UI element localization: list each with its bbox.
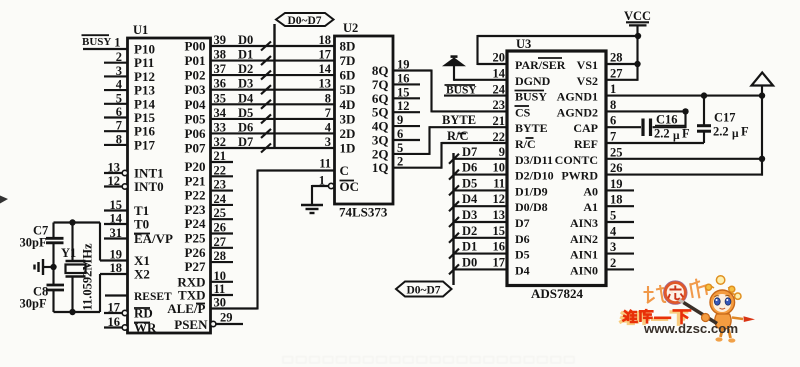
svg-text:D3: D3	[462, 208, 477, 222]
svg-text:11.0592MHz: 11.0592MHz	[81, 243, 95, 310]
svg-text:BYTE: BYTE	[515, 121, 548, 135]
wire net BUSY to ADS7824 BUSY (pin 24)	[444, 83, 507, 97]
svg-text:D2/D10: D2/D10	[515, 169, 554, 183]
svg-text:A1: A1	[583, 200, 598, 214]
wire U1 pin 29 PSEN stub with bubble	[174, 311, 243, 333]
svg-text:18: 18	[319, 33, 332, 47]
svg-text:1: 1	[610, 82, 616, 96]
svg-text:30pF: 30pF	[20, 236, 47, 250]
svg-text:36: 36	[214, 77, 227, 91]
svg-text:D6: D6	[515, 232, 530, 246]
wire U3 AGND2 (pin 8)	[606, 98, 689, 115]
svg-text:D4: D4	[515, 263, 530, 277]
svg-text:CONTC: CONTC	[555, 153, 598, 167]
wire X1 node: top bar to U1 X1	[54, 219, 101, 260]
svg-text:29: 29	[220, 311, 233, 325]
wire U1 pin 6 P15 stub	[104, 105, 155, 125]
svg-text:32: 32	[214, 135, 227, 149]
svg-text:38: 38	[214, 48, 227, 62]
svg-text:17: 17	[319, 48, 332, 62]
svg-text:P27: P27	[185, 259, 206, 274]
wire U3 VS1 (pin 28) to VCC	[606, 51, 638, 65]
wire data bus D3: U1 P03 (pin 36) to 74LS373 5D (pin 13)	[211, 77, 335, 95]
svg-text:BYTE: BYTE	[442, 113, 476, 127]
svg-text:CAP: CAP	[573, 121, 598, 135]
svg-text:8Q: 8Q	[372, 63, 389, 78]
svg-text:P05: P05	[185, 111, 206, 126]
svg-text:8D: 8D	[340, 39, 356, 54]
wire PAR/SER (pin 20) tie to VCC rail	[478, 33, 642, 65]
node U3 left pin label D0/D8	[515, 200, 548, 214]
wire data bus D5: U1 P05 (pin 34) to 74LS373 3D (pin 7)	[211, 106, 335, 124]
wire data bus D2 to ADS7824 pin 15	[449, 224, 507, 243]
wire U1 pin 19 X1 stub	[100, 248, 150, 269]
wire U1 pin 5 P14 stub	[104, 91, 155, 111]
svg-text:D5: D5	[238, 106, 253, 120]
svg-text:35: 35	[214, 91, 227, 105]
svg-text:P07: P07	[185, 141, 206, 156]
svg-text:D1: D1	[238, 48, 253, 62]
svg-text:37: 37	[214, 62, 227, 76]
svg-text:1: 1	[114, 36, 120, 50]
svg-text:P03: P03	[185, 82, 206, 97]
svg-text:P20: P20	[185, 159, 206, 174]
node U3 left pin label D2/D10	[515, 169, 554, 183]
svg-text:16: 16	[397, 71, 410, 85]
svg-text:2Q: 2Q	[372, 146, 389, 161]
svg-text:25: 25	[610, 145, 623, 159]
svg-text:D0: D0	[238, 33, 253, 47]
wire U1 pin 27 P26 stub	[185, 235, 233, 260]
svg-text:P00: P00	[185, 39, 206, 54]
svg-text:AGND2: AGND2	[557, 105, 598, 119]
svg-text:19: 19	[610, 177, 623, 191]
svg-text:3: 3	[325, 135, 331, 149]
node bus flag D0~D7 (bottom)	[396, 282, 452, 297]
svg-text:30: 30	[214, 296, 227, 310]
capacitor C17 2.2uF on REF pin 7	[606, 96, 749, 144]
svg-text:C: C	[340, 163, 349, 178]
svg-text:8: 8	[610, 98, 616, 112]
svg-text:BUSY: BUSY	[515, 90, 547, 104]
svg-text:D0~D7: D0~D7	[287, 15, 321, 27]
svg-text:PWRD: PWRD	[561, 169, 598, 183]
wire data bus D4: U1 P04 (pin 35) to 74LS373 4D (pin 8)	[211, 91, 335, 109]
wire U1 pin 18 X2 stub	[100, 261, 150, 282]
svg-text:15: 15	[397, 85, 410, 99]
wire U2 OC (pin 1) to ground	[312, 174, 359, 205]
wire U3 VS2 (pin 27) to VCC	[606, 67, 638, 81]
svg-text:17: 17	[493, 255, 506, 269]
svg-text:U2: U2	[343, 21, 358, 35]
svg-text:25: 25	[214, 206, 227, 220]
svg-text:19: 19	[397, 58, 410, 72]
svg-text:2.2: 2.2	[713, 125, 729, 139]
svg-text:P02: P02	[185, 68, 206, 83]
svg-text:22: 22	[214, 163, 227, 177]
wire U1 pin 22 P21 stub	[185, 163, 233, 188]
svg-text:D0~D7: D0~D7	[406, 285, 440, 297]
svg-text:28: 28	[610, 51, 623, 65]
svg-text:23: 23	[214, 178, 227, 192]
wire U1 pin 17 RD stub with bubble	[104, 301, 153, 321]
svg-text:26: 26	[610, 161, 623, 175]
svg-text:6: 6	[610, 114, 616, 128]
svg-text:P01: P01	[185, 53, 206, 68]
svg-text:ADS7824: ADS7824	[531, 286, 584, 301]
svg-text:D3/D11: D3/D11	[515, 153, 553, 167]
svg-text:7: 7	[610, 130, 616, 144]
wire data bus D3 to ADS7824 pin 13	[449, 208, 507, 227]
svg-text:INT0: INT0	[134, 179, 164, 194]
svg-text:27: 27	[610, 67, 623, 81]
svg-text:U3: U3	[516, 37, 531, 51]
svg-text:13: 13	[493, 208, 506, 222]
wire data bus D1: U1 P01 (pin 38) to 74LS373 7D (pin 17)	[211, 48, 335, 66]
svg-text:2: 2	[610, 256, 616, 270]
svg-text:D6: D6	[462, 161, 477, 175]
wire U1 pin 4 P13 stub	[104, 78, 155, 98]
svg-text:9: 9	[499, 145, 505, 159]
wire U3 pin 5 AIN3 stub	[606, 209, 634, 223]
svg-text:D5: D5	[462, 176, 477, 190]
svg-text:T0: T0	[134, 217, 149, 232]
svg-text:F: F	[682, 127, 690, 141]
node U3 left pin label D1/D9	[515, 184, 548, 198]
svg-text:D6: D6	[238, 120, 253, 134]
node U3 left pin label CS	[515, 105, 531, 119]
svg-text:11: 11	[493, 176, 505, 190]
faint scanned caption (blurred)	[283, 357, 574, 364]
svg-text:C16: C16	[656, 113, 678, 127]
svg-text:74LS373: 74LS373	[339, 205, 388, 220]
wire U3 AGND1 (pin 1) to analog ground rail	[606, 82, 765, 99]
svg-text:D7: D7	[515, 216, 530, 230]
wire U3 pin 2 AIN0 stub	[606, 256, 634, 270]
node U3 left pin label D3/D11	[515, 153, 553, 167]
svg-text:F: F	[741, 125, 749, 139]
svg-text:P21: P21	[185, 173, 206, 188]
svg-text:11: 11	[319, 157, 331, 171]
svg-text:14: 14	[319, 62, 332, 76]
wire U2 output 5Q (pin 12) stub	[372, 99, 420, 120]
svg-text:5Q: 5Q	[372, 105, 389, 120]
svg-text:18: 18	[110, 261, 123, 275]
svg-text:9: 9	[397, 113, 403, 127]
op-amp U3 ADS7824 ADC body	[507, 37, 606, 301]
node bus flag D0~D7 (top)	[276, 13, 334, 27]
wire data bus D7 to ADS7824 pin 9	[449, 145, 507, 164]
wire U2 output 2Q (pin 5) stub	[372, 141, 430, 162]
svg-text:P26: P26	[185, 245, 206, 260]
scan artifact mark	[0, 196, 8, 204]
wire U1 pin 24 P23 stub	[185, 192, 233, 217]
svg-text:AIN3: AIN3	[570, 216, 598, 230]
svg-text:3D: 3D	[340, 111, 356, 126]
node U3 left pin label D6	[515, 232, 530, 246]
svg-text:D1/D9: D1/D9	[515, 184, 548, 198]
svg-text:www.dzsc.com: www.dzsc.com	[643, 321, 738, 336]
ground symbol below U2 OC	[301, 205, 323, 213]
node U3 left pin label BYTE	[515, 121, 548, 135]
svg-text:1D: 1D	[340, 141, 356, 156]
wire U1 pin 7 P16 stub	[104, 119, 155, 139]
svg-text:D0/D8: D0/D8	[515, 200, 548, 214]
node U3 left pin label D5	[515, 248, 530, 262]
svg-text:R/C: R/C	[515, 137, 536, 151]
svg-text:U1: U1	[133, 23, 148, 37]
svg-text:5: 5	[397, 141, 403, 155]
svg-text:16: 16	[493, 240, 506, 254]
svg-text:6: 6	[397, 127, 403, 141]
wire U2 output 7Q (pin 16) stub	[372, 71, 420, 92]
wire X2 node: bottom bar to U1 X2	[54, 274, 101, 315]
wire ALE/P (U1 pin 30) to 74LS373 C (pin 11)	[167, 157, 334, 317]
svg-text:11: 11	[214, 282, 226, 296]
node BUSY (U1 pin 1 P10)	[82, 35, 155, 56]
wire U1 pin 31 EA/VP stub	[104, 226, 173, 246]
svg-text:15: 15	[493, 224, 506, 238]
svg-text:μ: μ	[673, 130, 680, 142]
node U3 left pin label R/C	[515, 137, 536, 151]
capacitor C7 30pF	[20, 223, 64, 285]
svg-text:A0: A0	[583, 184, 598, 198]
svg-text:CS: CS	[515, 105, 531, 119]
svg-text:D5: D5	[515, 248, 530, 262]
wire data bus D4 to ADS7824 pin 12	[449, 192, 507, 211]
ground arrow (analog ground, open triangle)	[752, 73, 774, 176]
wire U2 output 6Q (pin 15) stub	[372, 85, 420, 106]
wire net BYTE: U2 2Q to ADS7824 BYTE (pin 21)	[430, 113, 508, 155]
wire net CS: U2 8Q to ADS7824 CS (pin 23)	[432, 70, 508, 113]
svg-text:34: 34	[214, 106, 227, 120]
svg-text:4: 4	[325, 120, 332, 134]
crystal Y1 11.0592MHz	[61, 223, 95, 313]
svg-text:AIN2: AIN2	[570, 232, 598, 246]
wire U3 pin 18 A1 stub	[606, 193, 634, 207]
svg-text:VS2: VS2	[577, 74, 598, 88]
wire U1 pin 8 P17 stub	[104, 132, 155, 152]
svg-text:19: 19	[110, 248, 123, 262]
svg-text:D2: D2	[238, 62, 253, 76]
svg-text:P06: P06	[185, 126, 206, 141]
svg-text:21: 21	[493, 114, 506, 128]
wire U1 pin 2 P11 stub	[104, 50, 154, 70]
wire U1 pin 3 P12 stub	[104, 64, 155, 84]
svg-text:8: 8	[325, 91, 331, 105]
svg-text:P25: P25	[185, 231, 206, 246]
ground symbol (crystal network)	[35, 259, 57, 275]
svg-text:24: 24	[214, 192, 227, 206]
wire U2 output 1Q (pin 2) stub	[372, 155, 442, 176]
wire U1 pin 26 P25 stub	[185, 221, 233, 246]
svg-text:D7: D7	[462, 145, 477, 159]
wire data bus D0 to ADS7824 pin 17	[449, 255, 507, 274]
wire data bus D5 to ADS7824 pin 11	[449, 176, 507, 195]
svg-text:P22: P22	[185, 188, 206, 203]
wire U1 pin 14 T0 stub	[104, 212, 149, 232]
svg-text:P24: P24	[185, 216, 206, 231]
svg-text:R/C: R/C	[447, 129, 469, 143]
svg-text:13: 13	[319, 77, 332, 91]
svg-text:24: 24	[493, 83, 506, 97]
watermark: dzsc.com mascot logo	[619, 276, 755, 343]
power symbol VCC	[624, 9, 651, 81]
wire data bus D2: U1 P02 (pin 37) to 74LS373 6D (pin 14)	[211, 62, 335, 80]
svg-text:VS1: VS1	[577, 58, 598, 72]
wire data bus D6 to ADS7824 pin 10	[449, 161, 507, 180]
svg-text:12: 12	[397, 99, 410, 113]
svg-text:20: 20	[493, 51, 506, 65]
wire U2 output 8Q (pin 19) stub	[372, 58, 432, 79]
wire U1 pin 13 INT1 stub with bubble	[104, 161, 164, 181]
svg-text:D3: D3	[238, 77, 253, 91]
wire vertical data bus line to flag D0~D7 (bottom)	[452, 153, 454, 285]
svg-text:D1: D1	[462, 240, 477, 254]
svg-text:VCC: VCC	[624, 9, 651, 23]
capacitor C16 2.2uF on CAP pin 6	[606, 111, 690, 142]
svg-text:7Q: 7Q	[372, 77, 389, 92]
svg-text:6D: 6D	[340, 68, 356, 83]
capacitor C8 30pF	[20, 285, 65, 313]
svg-text:Y1: Y1	[61, 246, 76, 260]
wire net R/C: U2 1Q to ADS7824 R/C (pin 22)	[442, 129, 508, 169]
svg-text:PAR/SER: PAR/SER	[515, 58, 566, 72]
svg-text:3: 3	[610, 240, 616, 254]
wire U1 pin 28 P27 stub	[185, 249, 233, 274]
wire U2 output 4Q (pin 9) stub	[372, 113, 420, 134]
node U3 left pin label PAR/SER	[515, 58, 566, 72]
wire U3 PWRD (pin 26) to ground rail	[606, 161, 763, 175]
svg-text:12: 12	[493, 192, 506, 206]
wire U1 pin 25 P24 stub	[185, 206, 233, 231]
svg-text:4Q: 4Q	[372, 119, 389, 134]
svg-text:39: 39	[214, 33, 227, 47]
wire U1 pin 11 TXD stub	[178, 282, 233, 303]
svg-text:BUSY: BUSY	[82, 36, 111, 48]
svg-text:AGND1: AGND1	[557, 90, 598, 104]
node U3 left pin label DGND	[515, 74, 551, 88]
op-amp U1 8051 MCU body	[128, 23, 211, 333]
wire U1 pin 16 WR stub with bubble	[104, 315, 157, 335]
svg-text:28: 28	[214, 249, 227, 263]
svg-text:AIN1: AIN1	[570, 248, 598, 262]
wire U1 RESET stub	[105, 291, 172, 303]
svg-text:4D: 4D	[340, 97, 356, 112]
wire U1 pin 12 INT0 stub with bubble	[104, 174, 164, 194]
wire vertical data bus line to flag D0~D7 (top)	[273, 24, 275, 149]
svg-text:7D: 7D	[340, 53, 356, 68]
svg-text:7: 7	[325, 106, 331, 120]
svg-text:C17: C17	[714, 111, 736, 125]
wire U1 pin 23 P22 stub	[185, 178, 233, 203]
wire data bus D6: U1 P06 (pin 33) to 74LS373 2D (pin 4)	[211, 120, 335, 138]
wire U3 pin 19 A0 stub	[606, 177, 634, 191]
svg-text:P04: P04	[185, 97, 206, 112]
svg-text:4: 4	[610, 224, 617, 238]
svg-text:5D: 5D	[340, 82, 356, 97]
svg-text:BUSY: BUSY	[446, 85, 477, 97]
wire data bus D0: U1 P00 (pin 39) to 74LS373 8D (pin 18)	[211, 33, 335, 51]
svg-text:AIN0: AIN0	[570, 263, 598, 277]
svg-text:22: 22	[493, 130, 506, 144]
svg-text:10: 10	[493, 161, 506, 175]
wire U3 CONTC (pin 25) to ground rail	[606, 145, 765, 162]
svg-text:DGND: DGND	[515, 74, 551, 88]
power arrow DGND (pin 14)	[444, 57, 508, 81]
svg-text:2D: 2D	[340, 126, 356, 141]
svg-text:5: 5	[610, 209, 616, 223]
node U3 left pin label D4	[515, 263, 530, 277]
svg-text:2.2: 2.2	[654, 127, 670, 141]
svg-text:26: 26	[214, 221, 227, 235]
wire U2 output 3Q (pin 6) stub	[372, 127, 420, 148]
wire data bus D7: U1 P07 (pin 32) to 74LS373 1D (pin 3)	[211, 135, 335, 153]
wire U3 pin 3 AIN1 stub	[606, 240, 634, 254]
svg-text:P17: P17	[134, 137, 155, 152]
op-amp U2 74LS373 latch body	[335, 21, 394, 220]
svg-text:μ: μ	[732, 128, 739, 140]
wire U1 pin 15 T1 stub	[104, 198, 149, 218]
wire U3 pin 4 AIN2 stub	[606, 224, 634, 238]
wire U1 pin 21 P20 stub	[185, 149, 233, 174]
svg-text:1Q: 1Q	[372, 160, 389, 175]
svg-text:21: 21	[214, 149, 227, 163]
svg-text:D4: D4	[462, 192, 478, 206]
svg-text:27: 27	[214, 235, 227, 249]
wire U1 pin 10 RXD stub	[177, 269, 233, 290]
svg-text:P23: P23	[185, 202, 206, 217]
svg-text:2: 2	[397, 155, 403, 169]
svg-text:D7: D7	[238, 135, 253, 149]
svg-text:30pF: 30pF	[20, 297, 47, 311]
svg-text:14: 14	[493, 67, 506, 81]
svg-text:D0: D0	[462, 255, 477, 269]
svg-text:PSEN: PSEN	[174, 317, 208, 332]
node U3 left pin label BUSY	[515, 90, 548, 104]
wire data bus D1 to ADS7824 pin 16	[449, 240, 507, 259]
svg-text:10: 10	[214, 269, 227, 283]
svg-text:D4: D4	[238, 91, 254, 105]
svg-text:33: 33	[214, 120, 227, 134]
svg-text:X2: X2	[134, 267, 150, 282]
svg-text:3Q: 3Q	[372, 133, 389, 148]
svg-text:6Q: 6Q	[372, 91, 389, 106]
svg-text:18: 18	[610, 193, 623, 207]
node U3 left pin label D7	[515, 216, 530, 230]
svg-text:D2: D2	[462, 224, 477, 238]
svg-text:REF: REF	[574, 137, 598, 151]
svg-text:23: 23	[493, 98, 506, 112]
